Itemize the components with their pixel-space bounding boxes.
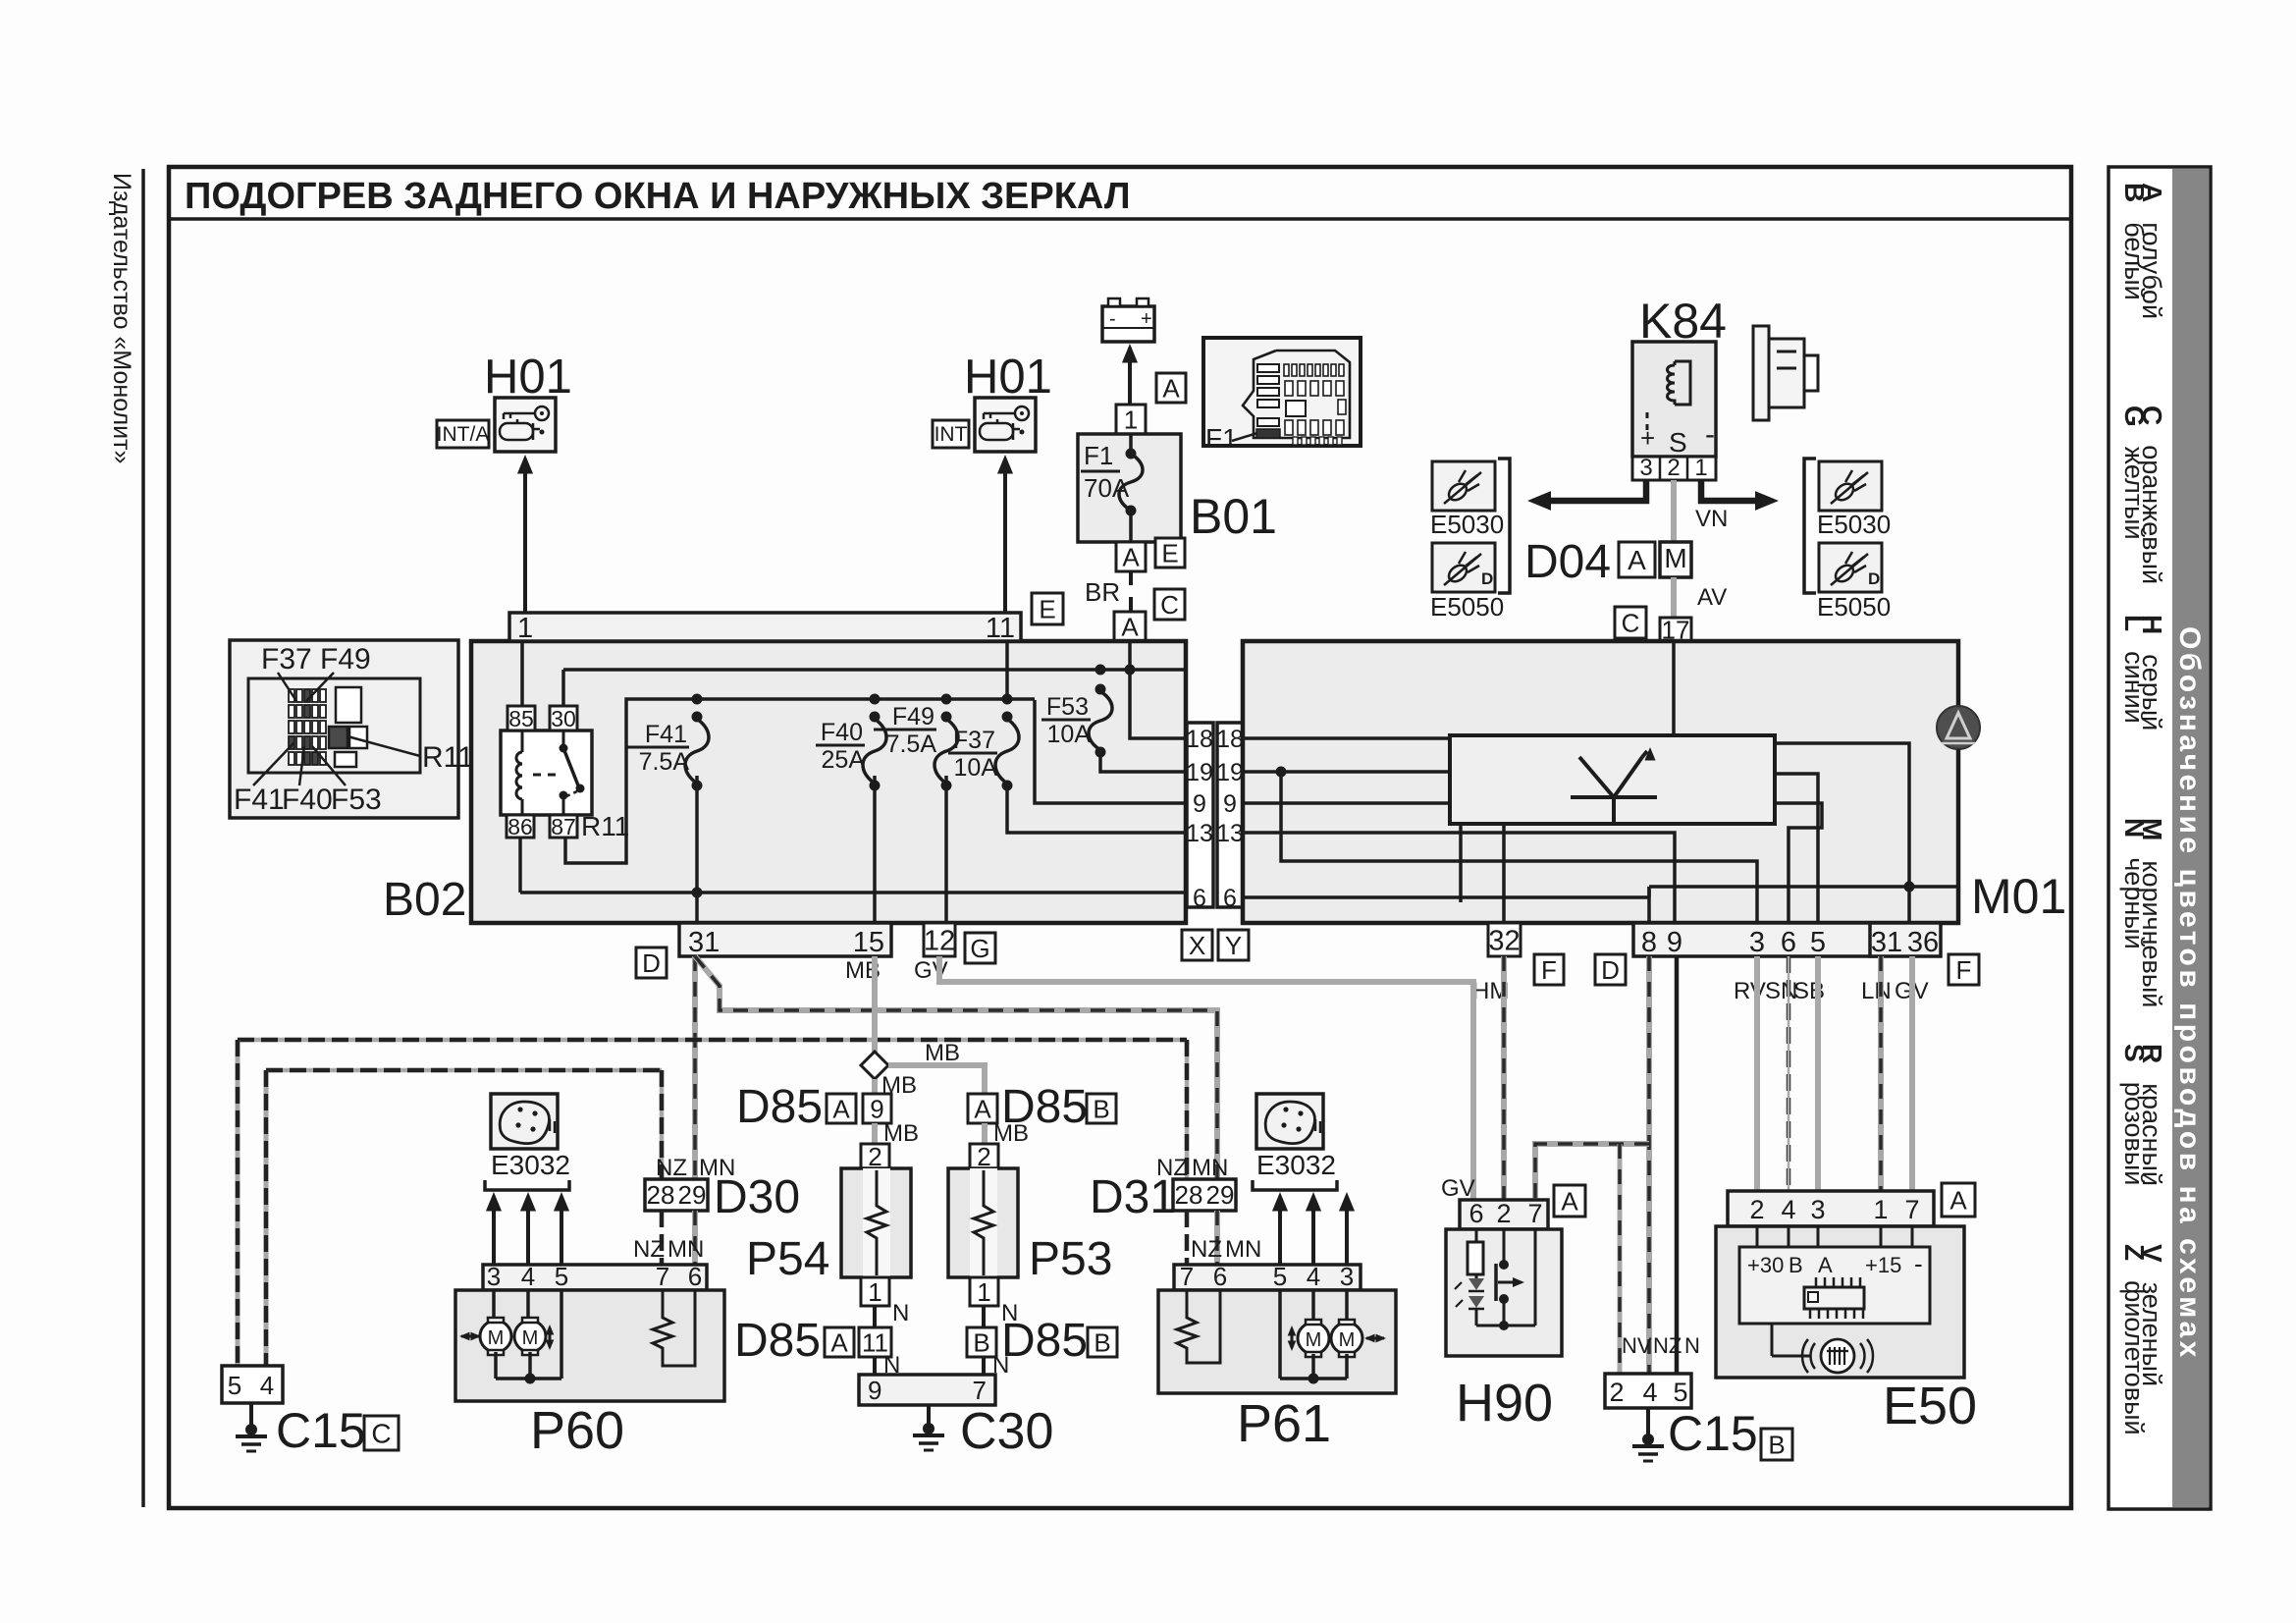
connector E5030 right icon (1819, 461, 1882, 511)
svg-text:H90: H90 (1456, 1374, 1553, 1433)
svg-text:B: B (1789, 1253, 1803, 1277)
svg-text:2: 2 (1667, 455, 1680, 481)
connector G label box (965, 933, 995, 963)
wire GV to E50 pin7 (1909, 956, 1915, 1193)
wire F53 to row19 (1100, 752, 1187, 772)
fusebox top fuse row (1284, 364, 1289, 376)
svg-text:Bбелый: Bбелый (2119, 183, 2150, 300)
junction pin31 wire (1904, 882, 1915, 893)
svg-text:3: 3 (1340, 1262, 1354, 1291)
svg-text:6: 6 (1781, 927, 1796, 958)
wire N pin9 to C15B pin5 (1675, 956, 1680, 1374)
connector E3032 right icon (1256, 1094, 1323, 1149)
svg-text:6: 6 (1468, 1199, 1483, 1228)
connector D31 28 29 (1173, 1179, 1236, 1211)
svg-text:7: 7 (1180, 1262, 1194, 1291)
connector M box D04 (1660, 542, 1691, 577)
bracket right group (1804, 459, 1816, 593)
mirror unit P60 (455, 1290, 724, 1401)
svg-text:P53: P53 (1029, 1233, 1112, 1285)
wire 17 inside M01 (1672, 641, 1676, 735)
svg-text:25A: 25A (822, 746, 866, 774)
connector D label box M01 (1595, 954, 1626, 985)
battery G01 (1102, 306, 1154, 342)
wire arrow to H01 right (1003, 460, 1007, 613)
sidebar frame (2109, 167, 2211, 1509)
svg-text:6: 6 (688, 1262, 702, 1291)
svg-text:32: 32 (1488, 925, 1520, 956)
svg-text:D: D (642, 948, 661, 978)
inner control unit box M01 (1450, 735, 1775, 824)
junction A-pin tap (1125, 665, 1136, 676)
svg-text:D: D (1601, 955, 1620, 985)
svg-text:E50: E50 (1883, 1377, 1977, 1435)
svg-text:87: 87 (551, 814, 576, 839)
control unit E50 (1716, 1226, 1964, 1378)
svg-text:F1: F1 (1205, 423, 1238, 454)
wire arrow to H01 left (523, 460, 527, 613)
svg-text:MB: MB (925, 1040, 960, 1066)
H90 LED (1475, 1274, 1478, 1278)
switch H90 body (1446, 1229, 1562, 1356)
connector C box M01 top (1615, 607, 1646, 638)
svg-text:F53: F53 (1046, 693, 1089, 721)
svg-text:E5030: E5030 (1817, 510, 1891, 539)
wire MN from pin31 down to D30 (692, 956, 698, 1179)
svg-text:A: A (1949, 1185, 1967, 1215)
H01 icon box (975, 398, 1036, 452)
svg-text:3: 3 (487, 1262, 501, 1291)
wire NZ down to D30 pin28 (660, 1070, 665, 1179)
svg-text:A: A (974, 1094, 991, 1123)
pin 2 box P53 (970, 1144, 998, 1168)
wire MB from pin15 (872, 956, 878, 1053)
relay coil (521, 730, 524, 752)
svg-text:M: M (488, 1327, 505, 1349)
svg-text:NV: NV (1622, 1333, 1652, 1358)
svg-text:1: 1 (977, 1277, 990, 1307)
junction F53 tap (1095, 665, 1106, 676)
svg-text:AV: AV (1697, 584, 1727, 611)
P61 motor right (1345, 1290, 1349, 1323)
svg-text:13: 13 (1216, 820, 1244, 847)
svg-text:7: 7 (1527, 1199, 1542, 1228)
svg-text:2: 2 (1609, 1378, 1624, 1407)
svg-text:INT: INT (934, 423, 968, 446)
svg-text:GV: GV (1441, 1175, 1475, 1202)
mirror unit P61 (1158, 1290, 1396, 1393)
svg-text:Y: Y (1225, 931, 1242, 960)
svg-text:Nчерный: Nчерный (2119, 818, 2150, 949)
svg-text:E: E (1161, 538, 1178, 568)
pin A box on B02 top (1114, 612, 1146, 641)
svg-text:G: G (970, 934, 989, 963)
ground C15B (1646, 1408, 1650, 1435)
connector P61 strip (1174, 1265, 1361, 1290)
connector B label box C15B (1761, 1429, 1792, 1460)
connector H90 strip 6 2 7 (1460, 1200, 1548, 1229)
ground C30 (927, 1405, 931, 1426)
connector E label box (1032, 593, 1063, 624)
title separator (169, 217, 2071, 221)
svg-text:1: 1 (1873, 1195, 1888, 1224)
svg-text:N: N (1684, 1333, 1700, 1358)
svg-text:9: 9 (1223, 790, 1237, 818)
K84 pin strip 3 2 1 (1632, 457, 1716, 480)
svg-text:F53: F53 (331, 784, 382, 816)
P60 motor right (526, 1290, 530, 1321)
svg-text:F40: F40 (821, 719, 863, 746)
svg-text:A: A (1628, 545, 1646, 575)
block B02 (471, 641, 1186, 923)
pin 86 box (507, 815, 534, 838)
svg-text:R11: R11 (581, 811, 629, 841)
wire N P53 (982, 1306, 986, 1327)
svg-text:M01: M01 (1971, 869, 2066, 924)
svg-text:A: A (830, 1327, 848, 1357)
antenna symbol (1571, 795, 1657, 799)
connector A label box H90 (1554, 1185, 1585, 1217)
svg-text:D: D (1481, 569, 1493, 588)
connector strip 8 9 3 6 5 (1633, 923, 1877, 956)
svg-text:4: 4 (1307, 1262, 1320, 1291)
wire SB to E50 pin3 (1815, 956, 1821, 1193)
connector C label box (1154, 589, 1185, 620)
svg-text:Обозначение цветов проводов на: Обозначение цветов проводов на схемах (2173, 626, 2206, 1361)
label A box D85B (968, 1094, 997, 1123)
wire NZ left down to C15 (236, 1040, 240, 1366)
svg-text:7.5A: 7.5A (886, 730, 937, 758)
connector E50 strip 2 4 3 1 7 (1728, 1191, 1934, 1226)
svg-text:3: 3 (1810, 1195, 1825, 1224)
svg-text:BR: BR (1085, 577, 1120, 607)
svg-text:E5030: E5030 (1430, 510, 1504, 539)
pin 1 box P53 (970, 1277, 998, 1306)
svg-text:E5050: E5050 (1817, 592, 1891, 622)
H90 pin7 inner line (1534, 1229, 1537, 1325)
svg-text:F1: F1 (1084, 441, 1113, 470)
svg-text:28: 28 (647, 1180, 675, 1210)
arrow vertical P61 (1291, 1328, 1294, 1348)
wire logo down (1956, 749, 1960, 887)
P60 motor left (492, 1290, 496, 1321)
svg-text:C30: C30 (960, 1403, 1053, 1460)
H90 bottom join (1476, 1325, 1535, 1327)
svg-text:B: B (1093, 1094, 1109, 1123)
bracket E3032 left (485, 1180, 569, 1190)
connector C label box C15C (364, 1416, 399, 1450)
svg-text:5: 5 (1673, 1378, 1687, 1407)
wire MB branch right (888, 1065, 985, 1096)
connector F label box right (1949, 954, 1979, 985)
svg-text:C15: C15 (276, 1403, 366, 1458)
svg-text:28: 28 (1175, 1180, 1203, 1210)
junction F40 (870, 694, 881, 705)
svg-text:+15: +15 (1865, 1253, 1901, 1277)
svg-text:-: - (1914, 1249, 1923, 1278)
rail wire from pin87 (565, 699, 1035, 863)
svg-text:B: B (973, 1327, 989, 1357)
pin 2 box P54 (861, 1144, 889, 1168)
arrow vertical P60 (549, 1327, 552, 1347)
connector Y column (1217, 723, 1243, 907)
connector C30 strip (859, 1375, 995, 1405)
svg-text:VN: VN (1695, 506, 1728, 532)
svg-text:F49: F49 (892, 703, 934, 730)
connector X column (1187, 723, 1213, 907)
svg-text:7: 7 (973, 1376, 987, 1405)
wire NZ to C15 pin4 (264, 1070, 269, 1366)
svg-text:29: 29 (678, 1180, 707, 1210)
sidebar dark bar (2172, 169, 2209, 1507)
svg-text:D85: D85 (1001, 1315, 1088, 1367)
svg-text:6: 6 (1193, 885, 1206, 912)
fusebox left slot column (1257, 364, 1279, 372)
logo emblem (1937, 706, 1980, 749)
svg-text:Lсиний: Lсиний (2119, 615, 2150, 724)
E50 internal wire to defroster (1771, 1324, 1774, 1356)
svg-text:Издательство «Монолит»: Издательство «Монолит» (108, 173, 135, 463)
svg-text:31: 31 (688, 927, 720, 958)
svg-text:D: D (1868, 569, 1880, 588)
P61 heater resistor (1177, 1290, 1220, 1363)
svg-text:9: 9 (1667, 927, 1682, 958)
svg-text:M: M (1339, 1329, 1356, 1351)
svg-text:4: 4 (260, 1371, 274, 1400)
fuse F1 dark slot (1256, 429, 1280, 438)
svg-text:F40: F40 (282, 784, 333, 816)
svg-text:4: 4 (521, 1262, 535, 1291)
junction F37 (1002, 694, 1013, 705)
svg-text:D30: D30 (714, 1171, 800, 1223)
connector D label box (636, 947, 667, 978)
connector A box D04 (1619, 542, 1655, 577)
wire pin8 up (1647, 887, 1651, 897)
arrow horizontal P61 (1366, 1337, 1384, 1340)
wire MB pin9 to P54 (872, 1123, 878, 1144)
INT label box (933, 420, 969, 448)
wire AV to M01 pin17 (1671, 577, 1677, 618)
svg-text:19: 19 (1186, 759, 1213, 786)
svg-text:7: 7 (1904, 1195, 1919, 1224)
E50 IC chip (1804, 1287, 1864, 1309)
svg-text:F41: F41 (645, 721, 687, 748)
svg-text:B: B (1768, 1430, 1785, 1459)
svg-text:R11: R11 (422, 741, 474, 774)
connector A label box E50 (1942, 1183, 1975, 1217)
wire elbow to H90 pin7 (1535, 1144, 1649, 1200)
svg-text:2: 2 (1496, 1199, 1511, 1228)
svg-text:A: A (1122, 542, 1140, 571)
svg-text:-: - (1109, 308, 1116, 330)
wire NZ D31 branch down (1185, 1040, 1190, 1183)
wires D31 to P61 (1185, 1211, 1190, 1265)
svg-text:7.5A: 7.5A (639, 748, 690, 776)
fusebox relay square (1286, 401, 1306, 416)
P60 heater resistor (653, 1290, 695, 1366)
svg-text:6: 6 (1213, 1262, 1227, 1291)
wire innerbox to pin5 (1775, 774, 1818, 923)
wire relay86 row6 (518, 838, 522, 893)
relay R11 in B02 (501, 730, 592, 815)
wire rail to row9 (1035, 700, 1187, 803)
wire RV to E50 pin2 (1754, 956, 1760, 1193)
connector E strip pins 1-11 (509, 613, 1021, 641)
svg-text:P60: P60 (530, 1401, 624, 1460)
svg-text:A: A (832, 1094, 850, 1123)
wire NZ horizontal to C15 and D31 (238, 1038, 1187, 1043)
svg-text:E: E (1039, 594, 1055, 623)
splice diamond (861, 1052, 888, 1079)
svg-text:+30: +30 (1747, 1253, 1784, 1277)
svg-text:P61: P61 (1237, 1394, 1331, 1453)
pin 87 box (550, 815, 577, 838)
svg-text:A: A (1561, 1186, 1578, 1216)
svg-text:C15: C15 (1668, 1406, 1758, 1461)
svg-text:NZ: NZ (1191, 1236, 1222, 1263)
wire N P54 (873, 1306, 877, 1327)
fuse grid (289, 689, 294, 702)
svg-text:36: 36 (1907, 927, 1939, 958)
wire K84 pin3 to E5030 left (1536, 480, 1646, 501)
E50 defroster icon (1821, 1339, 1854, 1373)
E50 pin stubs (1756, 1226, 1759, 1247)
svg-text:E5050: E5050 (1430, 592, 1504, 622)
wire innerbox to pin31 (1775, 743, 1909, 923)
connector X label box (1182, 930, 1212, 960)
wires D30 to P60 (660, 1211, 665, 1265)
fusebox bottom fuse row (1285, 420, 1293, 435)
svg-text:Gжелтый: Gжелтый (2119, 406, 2150, 540)
svg-text:B: B (1094, 1327, 1110, 1357)
fusebox second fuse row (1285, 381, 1293, 396)
svg-text:10A: 10A (954, 754, 998, 782)
pin B box P53 lower (967, 1327, 996, 1357)
svg-text:86: 86 (507, 814, 533, 839)
wire NZ pin8 to C15B pin4 (1646, 956, 1652, 1374)
H90 switch contact (1503, 1229, 1506, 1261)
connector E3032 left icon (491, 1094, 558, 1149)
svg-text:6: 6 (1223, 885, 1237, 912)
svg-text:F: F (1956, 955, 1972, 985)
pin 9 box D85A (863, 1094, 891, 1123)
K84 connector plug icon (1753, 326, 1769, 420)
svg-text:10A: 10A (1047, 721, 1092, 748)
arrow horizontal P60 (461, 1335, 479, 1338)
P61 motor left (1311, 1290, 1315, 1323)
svg-text:MN: MN (1192, 1155, 1228, 1181)
svg-text:A: A (1162, 373, 1180, 403)
main frame (169, 167, 2071, 1508)
wire LN to E50 pin1 (1878, 956, 1884, 1193)
svg-text:7: 7 (656, 1262, 669, 1291)
svg-text:1: 1 (1124, 405, 1138, 434)
svg-text:M: M (1664, 543, 1686, 573)
connector A label box (battery) (1156, 373, 1186, 403)
svg-text:12: 12 (924, 925, 955, 956)
svg-text:4: 4 (1642, 1378, 1657, 1407)
wire battery to pin1 (1128, 348, 1132, 405)
svg-text:C: C (1160, 590, 1179, 620)
pin 17 box M01 (1660, 618, 1691, 641)
connector P60 strip (483, 1265, 707, 1290)
svg-text:+: + (1141, 308, 1152, 330)
heater P54 (841, 1168, 911, 1277)
wire BR dashed (1129, 571, 1133, 612)
wire MB to P53 pin2 (982, 1123, 988, 1144)
svg-text:5: 5 (555, 1262, 568, 1291)
wire GV from pin12 to H90 (939, 956, 1473, 1200)
wire A-pin to row18 (1130, 641, 1187, 738)
connector E5030 left icon (1432, 461, 1495, 511)
bracket E3032 right (1253, 1180, 1337, 1190)
wire N to C30 9 (873, 1357, 877, 1375)
svg-text:31: 31 (1871, 927, 1902, 958)
P61 motor common wire (1311, 1354, 1315, 1379)
left divider line (141, 169, 145, 1507)
svg-text:1: 1 (517, 613, 533, 644)
svg-text:30: 30 (551, 706, 576, 731)
connector D30 28 29 (645, 1179, 708, 1211)
pin 1 box B01 (1116, 405, 1146, 434)
H01 icon box (495, 398, 556, 452)
connector strip 31 36 (1870, 923, 1941, 956)
svg-text:H01: H01 (964, 351, 1052, 404)
connector E label box (1155, 538, 1185, 568)
wire HM from pin32 to H90 pin2 (1501, 956, 1507, 1200)
connector Y label box (1218, 930, 1249, 960)
svg-text:18: 18 (1186, 726, 1213, 753)
wire pin1 to relay 85 (520, 641, 524, 706)
pin A box below B01 (1116, 542, 1146, 571)
relay contact (533, 774, 557, 777)
relay K84 body (1632, 342, 1716, 457)
svg-text:19: 19 (1216, 759, 1244, 786)
svg-text:5: 5 (228, 1371, 241, 1400)
row18 wire M01 (1243, 736, 1450, 740)
pin 85 box (507, 706, 535, 730)
heater P53 (948, 1168, 1018, 1277)
svg-text:INT/A: INT/A (437, 423, 490, 446)
svg-text:RV: RV (1734, 978, 1766, 1004)
wire N to C30 7 (982, 1357, 986, 1375)
svg-text:X: X (1189, 931, 1205, 960)
pin 30 box (550, 706, 577, 730)
svg-text:E3032: E3032 (491, 1150, 570, 1180)
svg-text:B02: B02 (383, 874, 466, 926)
K84 coil (1668, 361, 1676, 405)
P60 motor common wire (494, 1352, 498, 1379)
wire pin11 down to rail (1005, 641, 1009, 699)
wire K84 pin1 to E5030 right (1701, 480, 1770, 501)
connector C15C strip 5 4 (222, 1366, 283, 1403)
fuse panel inset (230, 640, 458, 818)
connector C15B strip 2 4 5 (1605, 1374, 1691, 1408)
svg-text:H01: H01 (484, 351, 572, 404)
svg-text:F41: F41 (234, 784, 285, 816)
E50 inner box (1739, 1247, 1930, 1324)
H90 resistor (1475, 1229, 1478, 1242)
svg-text:8: 8 (1641, 927, 1657, 958)
pin 1 box P54 (861, 1277, 889, 1306)
svg-text:9: 9 (870, 1094, 883, 1123)
svg-text:P54: P54 (746, 1233, 829, 1285)
wire innerbox to pin32 (1502, 824, 1506, 923)
svg-text:15: 15 (853, 927, 884, 958)
svg-text:NZ: NZ (1653, 1333, 1682, 1358)
wire MN branch to D31 (695, 956, 1217, 1183)
svg-text:E3032: E3032 (1256, 1150, 1336, 1180)
